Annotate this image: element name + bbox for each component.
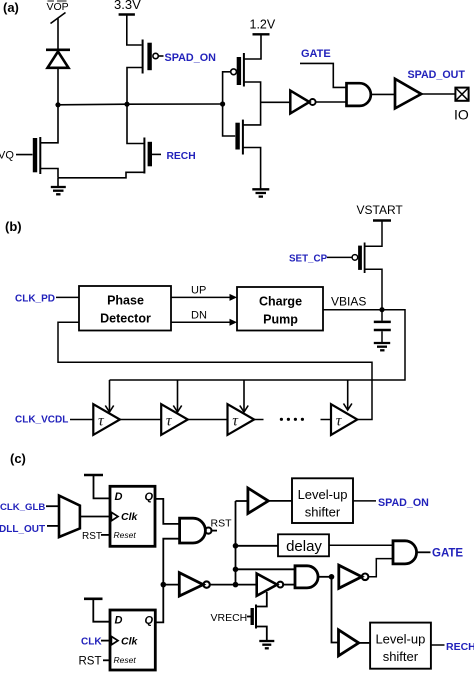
wire M2 drain / M3 drain output column [243, 82, 261, 125]
wire bias arrow into T4 [344, 380, 352, 410]
wire tie-high to FF1 D [94, 475, 111, 498]
node X junction dot [233, 582, 239, 588]
wire node B to inverter input node C [127, 103, 223, 105]
svg-text:DN: DN [191, 310, 207, 322]
node B junction dot [124, 102, 129, 107]
AND gate U2 [347, 83, 371, 106]
tie-high bar for FF2 D [84, 597, 103, 600]
wire bias arrow into T2 [173, 380, 181, 412]
wire node Q2 to inverter I1 [163, 584, 179, 586]
svg-text:shifter: shifter [305, 505, 341, 520]
wire VQ to M4 gate [16, 154, 33, 156]
supply VSTART rail bar [373, 219, 391, 221]
wire M4 drain to node A [40, 105, 58, 143]
svg-text:3.3V: 3.3V [114, 0, 141, 12]
svg-text:Reset: Reset [114, 655, 137, 665]
svg-text:(c): (c) [10, 451, 26, 466]
wire node B to M5 drain [127, 104, 144, 143]
wire node C to M3 gate [223, 104, 236, 136]
svg-text:shifter: shifter [383, 649, 419, 664]
wire I2 output to A1 bottom input [283, 584, 295, 586]
svg-text:IO: IO [454, 107, 469, 123]
buffer U3 [395, 79, 421, 109]
wire N1 output stub RST [212, 530, 218, 532]
wire node X to delay block [236, 545, 279, 547]
inverter I2 [257, 574, 283, 596]
wire bias arrow into T1 [105, 380, 113, 412]
wire MX1 output to FF1 clk [80, 516, 110, 518]
wire node C to M2 gate [223, 72, 231, 104]
wire VOP to diode [57, 19, 59, 50]
transistor M6 PMOS start-up [352, 243, 365, 274]
delay cell T3 [228, 404, 255, 435]
supply 3.3V rail bar [119, 13, 135, 15]
buffer B1 [248, 488, 268, 514]
wire UP arrow [171, 294, 237, 301]
phase detector U4 [79, 286, 171, 331]
svg-text:DLL_OUT: DLL_OUT [0, 524, 45, 535]
svg-text:RST: RST [211, 518, 233, 530]
wire node X to AND A1 top input [236, 568, 296, 570]
wire LS1 to SPAD_ON [353, 500, 376, 502]
AND gate A1 [295, 566, 318, 588]
svg-text:VQ: VQ [0, 150, 14, 162]
svg-text:Level-up: Level-up [375, 632, 425, 647]
wire LS2 to RECH [431, 644, 445, 646]
wire node A to node B [58, 103, 127, 106]
svg-text:UP: UP [191, 285, 206, 297]
capacitor C1 [374, 310, 391, 342]
svg-text:GATE: GATE [432, 548, 463, 560]
wire DN arrow [171, 319, 237, 326]
svg-text:Level-up: Level-up [298, 487, 348, 502]
svg-text:(a): (a) [3, 0, 19, 15]
transistor M5 NMOS recharge [144, 138, 161, 174]
wire RST to FF2 reset [103, 659, 110, 661]
node Y junction dot [329, 574, 335, 580]
inverter U1 [290, 91, 315, 114]
svg-text:Clk: Clk [121, 636, 139, 648]
inverter I3 [339, 565, 369, 588]
svg-text:delay: delay [286, 538, 322, 555]
wire M4 source to ground [40, 169, 58, 178]
wire U3 to IO pad [421, 93, 455, 95]
delay block DLY [278, 534, 329, 556]
node VBIAS junction dot [379, 307, 384, 312]
wire diode to node A [57, 68, 59, 105]
SPAD diode D1 [46, 50, 70, 68]
wire GATE to U2 top input [300, 63, 347, 87]
wire SET_CP to M6 gate [327, 256, 352, 258]
delay cell T2 [161, 404, 188, 435]
level-up shifter LS2 [370, 623, 431, 669]
wire U5 output to node VBIAS [323, 309, 382, 311]
charge pump U5 [237, 287, 323, 331]
svg-text:Detector: Detector [100, 312, 151, 326]
wire into T4 [321, 419, 332, 421]
ellipsis dots [280, 418, 304, 421]
IO pad [455, 88, 468, 101]
wire bias arrow into T3 [240, 380, 248, 412]
svg-text:VBIAS: VBIAS [331, 295, 366, 309]
svg-text:Pump: Pump [263, 313, 298, 327]
NAND gate N1 [180, 518, 212, 543]
AND gate A2 [393, 541, 417, 564]
wire FF1 Q to NAND1 top input [155, 499, 180, 524]
svg-text:D: D [115, 491, 123, 503]
svg-text:SPAD_OUT: SPAD_OUT [408, 69, 466, 81]
wire A1 output to node Y [318, 576, 332, 578]
wire T2 to T3 [188, 419, 228, 421]
wire common source rail [58, 172, 144, 178]
svg-text:CLK_GLB: CLK_GLB [0, 502, 45, 513]
wire FF2 Q up to N1 bottom input [155, 539, 179, 623]
mux MX1 [59, 496, 80, 537]
wire U2 to U3 [371, 93, 395, 95]
svg-text:VRECH: VRECH [211, 612, 248, 624]
wire 1.2V to M2 source [244, 34, 261, 59]
wire DLL feedback loop [58, 322, 372, 419]
wire delay to AND A2 top input [329, 544, 393, 546]
wire CLK_PD to U4 [56, 296, 79, 298]
delay cell T1 [93, 404, 120, 435]
svg-text:Q: Q [145, 491, 154, 503]
svg-text:SPAD_ON: SPAD_ON [165, 52, 217, 64]
wire CLK_GLB to MX1 [46, 505, 59, 507]
wire inverter stage output to U1 [261, 101, 291, 103]
svg-text:CLK_PD: CLK_PD [15, 294, 55, 305]
svg-text:Charge: Charge [259, 295, 302, 309]
transistor M7 NMOS VRECH [247, 592, 267, 640]
ground G3 [374, 343, 390, 350]
wire node Y down to buffer B2 [332, 577, 339, 643]
wire node X vertical bus [235, 501, 237, 585]
flip-flop FF1 [110, 486, 155, 546]
wire CLK_VCDL to T1 [70, 419, 93, 421]
wire B1 to level-up shifter LS1 [268, 500, 292, 502]
node Q2 junction dot [161, 582, 167, 588]
wire CLK to FF2 clk [101, 640, 110, 642]
svg-text:(b): (b) [5, 219, 22, 234]
wire B2 to level-up shifter LS2 [359, 642, 370, 644]
transistor M4 NMOS quench [35, 137, 40, 174]
wire T1 to T2 [120, 419, 161, 421]
wire I3 to A2 bottom input [368, 559, 393, 577]
svg-text:Phase: Phase [107, 294, 144, 308]
svg-text:Q: Q [145, 615, 154, 627]
delay cell T4 [331, 404, 357, 435]
node C junction dot [220, 101, 225, 106]
svg-text:D: D [115, 615, 123, 627]
svg-text:Clk: Clk [121, 511, 139, 523]
svg-text:GATE: GATE [301, 48, 331, 60]
wire VBIAS bias distribution [110, 310, 406, 380]
level-up shifter LS1 [292, 478, 353, 523]
svg-text:CLK: CLK [81, 636, 102, 647]
supply 1.2V rail bar [253, 33, 270, 35]
inverter I1 [179, 573, 210, 596]
svg-text:CLK_VCDL: CLK_VCDL [15, 415, 68, 426]
wire DLL_OUT to MX1 [47, 525, 59, 527]
svg-text:RST: RST [79, 656, 102, 668]
wire node X to buffer B1 [236, 500, 248, 502]
svg-text:SET_CP: SET_CP [289, 254, 328, 265]
svg-text:RECH: RECH [446, 641, 474, 653]
svg-text:VSTART: VSTART [357, 203, 404, 217]
buffer B2 [339, 630, 359, 656]
wire M6 drain to node VBIAS [365, 269, 382, 310]
svg-text:RST: RST [82, 531, 102, 542]
wire T3 output stub [254, 419, 263, 421]
ground G2 [51, 178, 66, 195]
wire VSTART to M6 source [365, 221, 382, 247]
wire A2 output to GATE [417, 551, 431, 553]
ground G1 [252, 189, 269, 196]
flip-flop FF2 [110, 610, 155, 670]
node A junction dot [55, 102, 60, 107]
svg-text:RECH: RECH [167, 151, 196, 162]
wire U1 to U2 [316, 101, 347, 103]
clipped text remnant at top edge [48, 0, 67, 2]
transistor M2 PMOS of 1.2V inverter [231, 53, 244, 87]
wire M3 source to ground [243, 148, 261, 189]
ground G4 [259, 641, 274, 648]
wire 3.3V to M1 source [127, 15, 142, 46]
svg-text:VOP: VOP [47, 1, 69, 13]
off-chip slash on VOP wire [51, 13, 66, 24]
wire RST to FF1 reset [101, 534, 110, 536]
svg-text:Reset: Reset [114, 530, 137, 540]
transistor M3 NMOS of 1.2V inverter [238, 120, 243, 155]
svg-text:SPAD_ON: SPAD_ON [378, 497, 429, 509]
svg-text:1.2V: 1.2V [250, 18, 276, 32]
wire tie-high to FF2 D [93, 599, 110, 622]
transistor M1 PMOS SPAD_ON [143, 40, 164, 74]
wire M1 drain to node B [127, 68, 143, 105]
node X and tap dot [233, 567, 239, 573]
tie-high bar for FF1 D [84, 474, 103, 477]
wire I1 output to node X and inverter I2 [210, 584, 257, 586]
node X delay tap dot [233, 543, 239, 549]
